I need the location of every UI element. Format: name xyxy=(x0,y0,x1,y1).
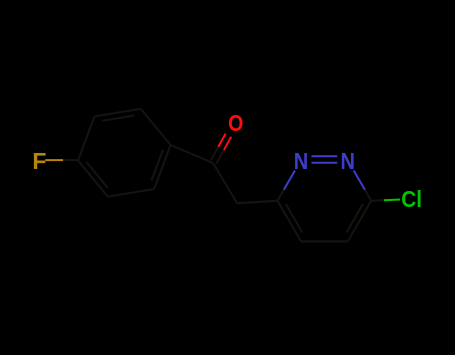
C=O double bond left line (carbon half) xyxy=(211,147,218,160)
benzene ring bond C5-C6 xyxy=(108,189,154,197)
N=N double bond lower line (blue) xyxy=(312,162,338,164)
bond F-C1 (carbon half) xyxy=(63,159,78,161)
bond C4-C(=O) xyxy=(171,145,213,163)
N=N double bond upper line (blue) xyxy=(312,155,338,157)
benzene double bond inner line C2-C3 xyxy=(102,115,134,120)
benzene double bond inner line C4-C5 xyxy=(152,150,164,181)
bond C3-Cl (carbon half) xyxy=(371,199,384,202)
C=O double bond right line (oxygen half, red) xyxy=(224,137,231,150)
svg-text:O: O xyxy=(228,111,243,137)
benzene ring bond C6-C1 xyxy=(78,161,108,197)
benzene ring bond C4-C5 xyxy=(154,145,171,189)
benzene ring bond C2-C3 xyxy=(94,109,140,117)
bond N2-C3 (nitrogen half, blue) xyxy=(354,171,365,190)
bond CH2-pyridazine C6 xyxy=(237,201,277,204)
pyridazine double bond inner line C3=C4 xyxy=(347,204,363,233)
svg-text:N: N xyxy=(294,148,308,175)
pyridazine double bond inner line C5=C6 xyxy=(286,204,302,233)
C=O double bond right line (carbon half) xyxy=(217,150,224,163)
bond N2-C3 (carbon half) xyxy=(365,190,371,201)
benzene double bond inner line C6-C1 xyxy=(87,162,108,187)
bond N1-C6 (nitrogen half, blue) xyxy=(284,171,295,190)
bond C3-Cl (chlorine half, green) xyxy=(384,199,400,202)
C=O double bond left line (oxygen half, red) xyxy=(218,134,225,147)
svg-text:F: F xyxy=(32,148,46,174)
bond F-C1 (fluorine half, gold) xyxy=(45,159,63,161)
benzene ring bond C3-C4 xyxy=(141,109,171,145)
pyridazine bond C5-C4 xyxy=(301,240,348,242)
pyridazine bond C4-C3 xyxy=(348,201,372,242)
bond C(=O)-CH2 xyxy=(213,163,237,203)
pyridazine bond C6-C5 xyxy=(278,201,302,242)
bond N1-C6 (carbon half) xyxy=(278,190,284,201)
svg-text:N: N xyxy=(340,148,354,175)
benzene ring bond C1-C2 xyxy=(78,117,94,161)
svg-text:Cl: Cl xyxy=(401,186,422,212)
